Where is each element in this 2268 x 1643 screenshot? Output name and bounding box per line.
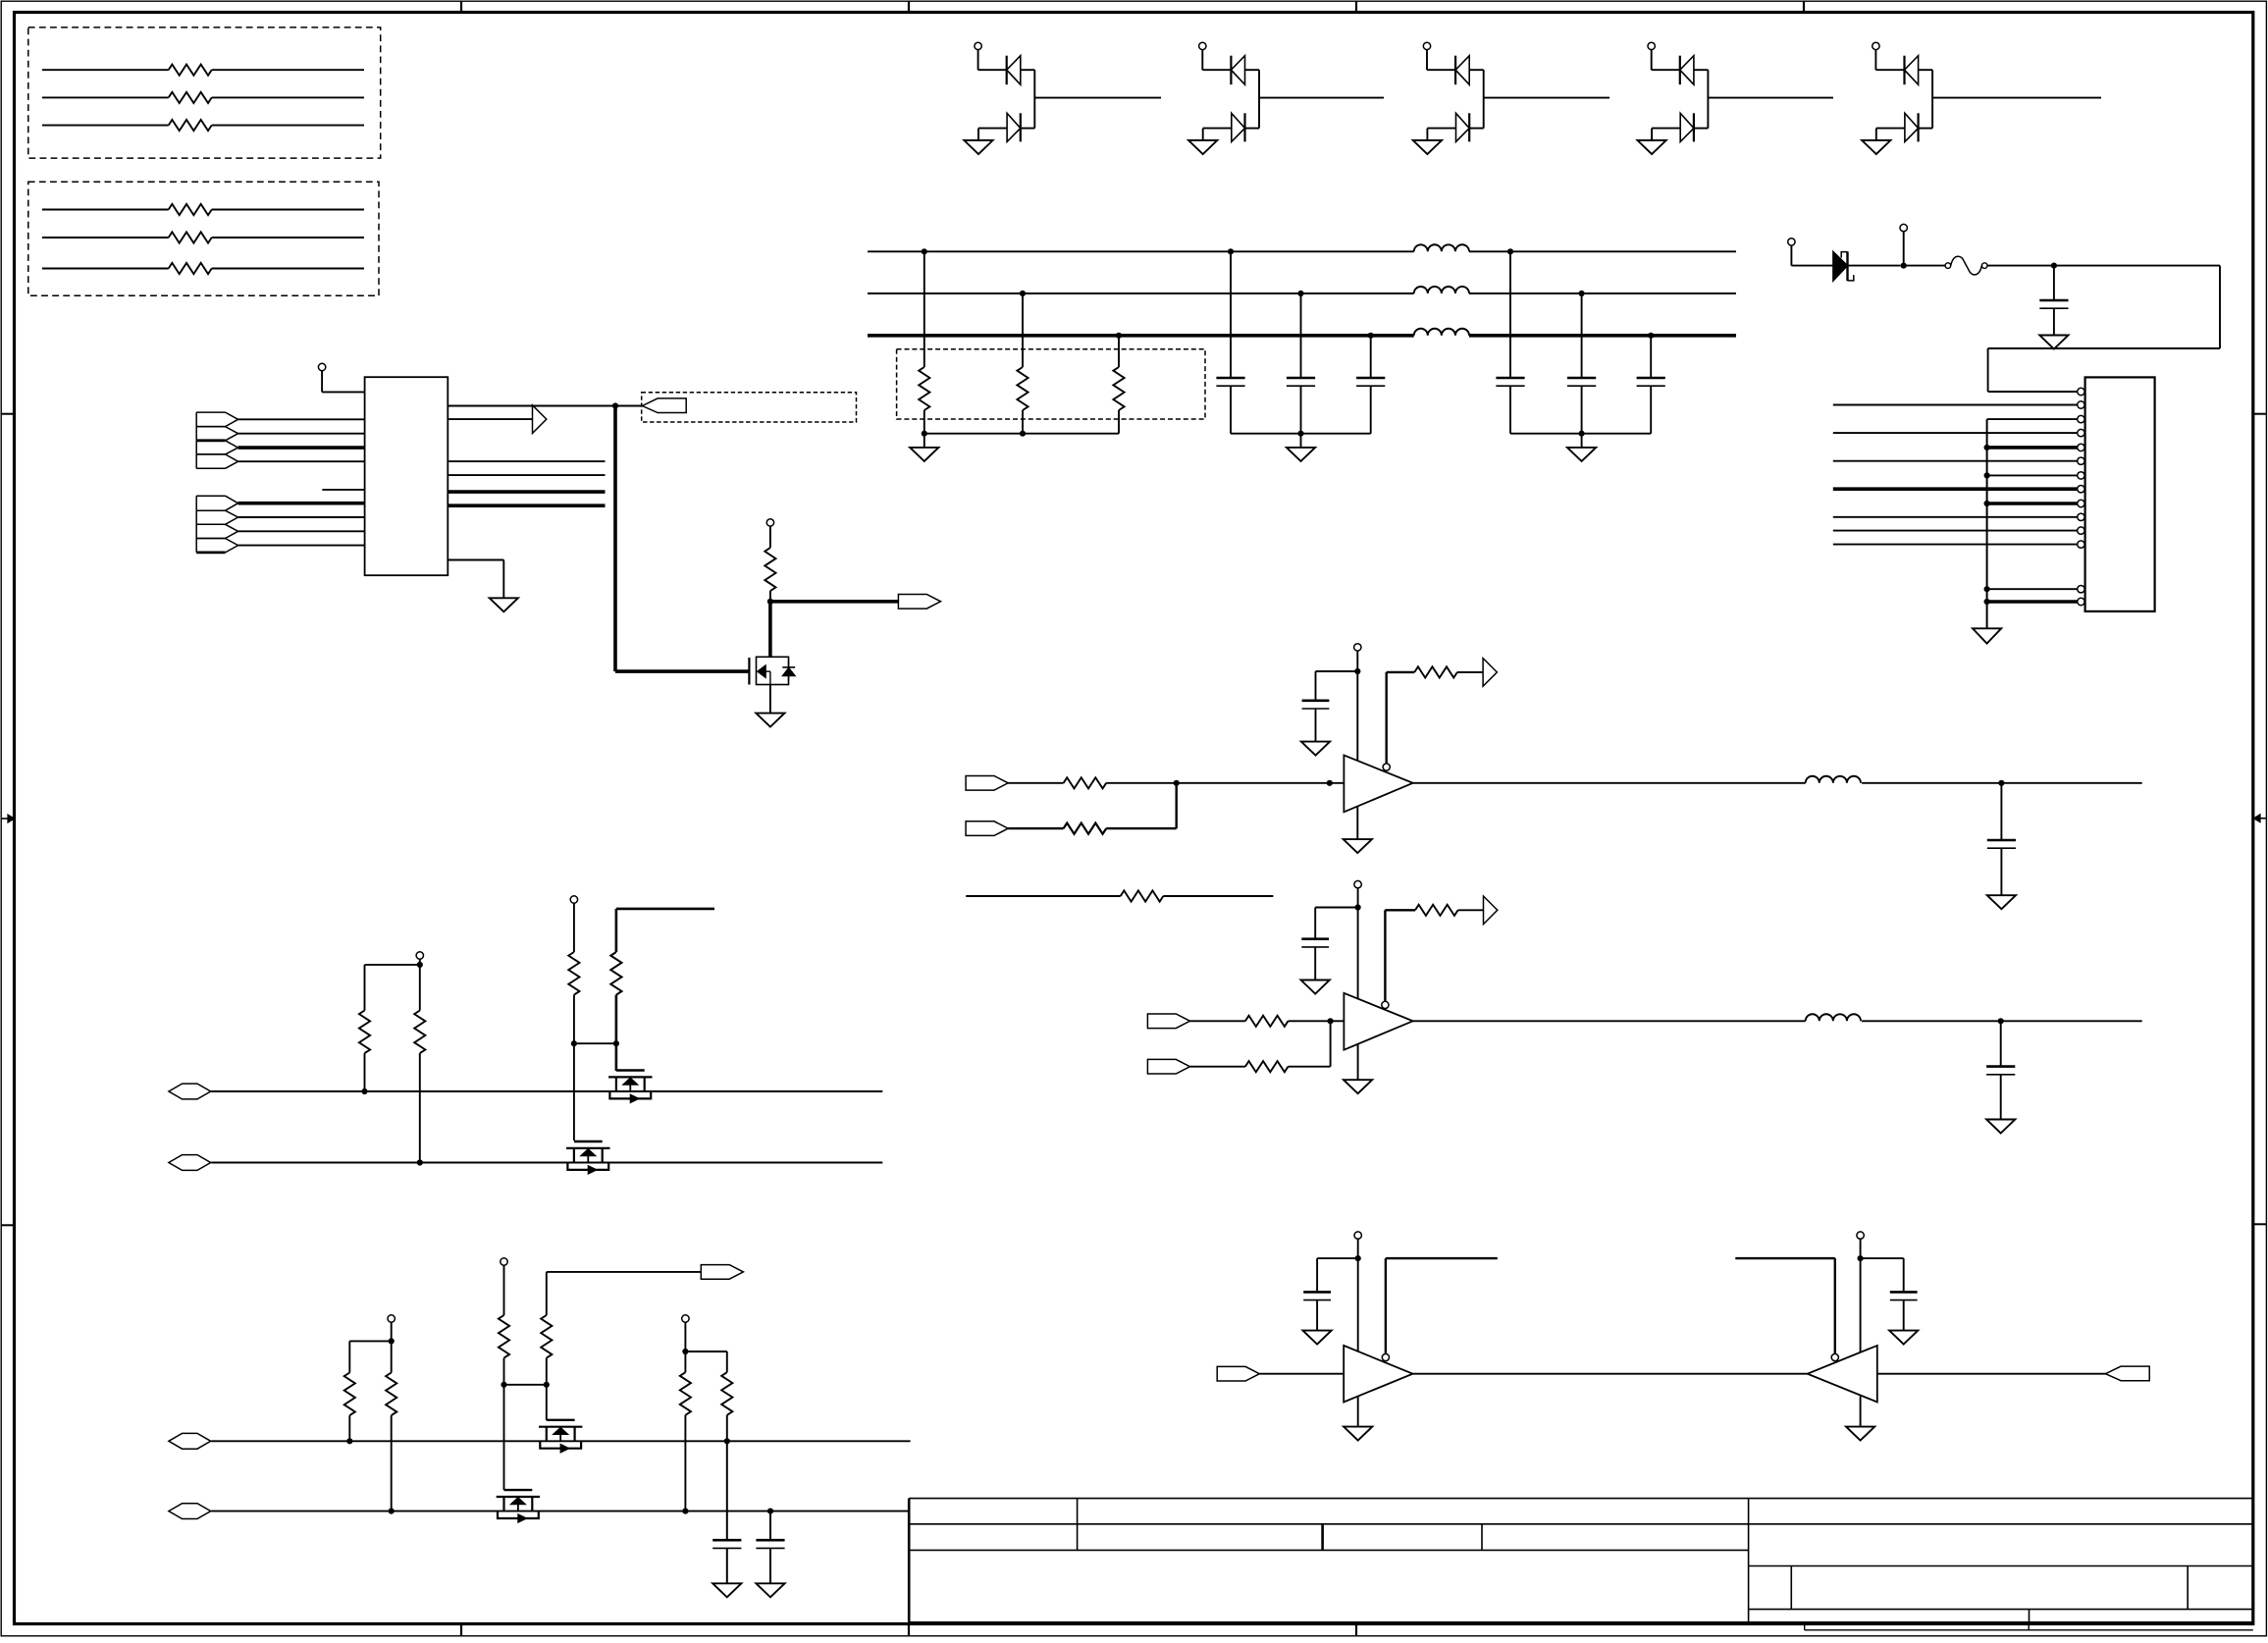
resistor R10 with wires — [966, 895, 1120, 897]
pullup supply pin P6 — [416, 952, 423, 959]
ESD pair D1 ground — [977, 129, 979, 140]
input port IN1 pentagon — [196, 411, 225, 413]
U2 shutdown bubble — [1383, 764, 1390, 770]
C11 ground — [1986, 1120, 2015, 1134]
transistor Q1 gate bar — [748, 658, 750, 685]
output label COUT — [2105, 1366, 2149, 1381]
bottom border zone tick 3 — [1355, 1624, 1357, 1637]
wire R11 to node E — [1289, 1020, 1331, 1022]
connector J1 pin 8 circle — [2078, 486, 2084, 493]
resistor R20 — [499, 1315, 509, 1358]
U3 shutdown bubble — [1382, 1001, 1389, 1008]
wire to J1 pin 2 — [1833, 404, 2078, 406]
capacitor C11 — [2000, 1021, 2002, 1066]
resistor R22 with wires — [42, 237, 169, 238]
diode D1B (to ground) — [978, 128, 1007, 130]
bottom strip start tick — [1804, 1624, 1806, 1630]
wire to C8 — [1316, 670, 1358, 672]
capacitor C5 — [1507, 248, 1513, 254]
resistor R18 — [348, 1415, 350, 1441]
title block sheet divider — [2029, 1610, 2031, 1622]
ground bus stub pin5 — [1987, 446, 2078, 450]
pullup supply pin P9 — [501, 1258, 507, 1265]
resistor R23 with wires — [42, 268, 169, 270]
resistor R11 with wires — [42, 69, 169, 71]
U5 vcc wire — [1860, 1258, 1862, 1352]
transistor Q1 channel arrow — [758, 665, 766, 678]
ESD pair D4 output wire — [1708, 97, 1833, 99]
node F junction — [1998, 1018, 2004, 1024]
ESD pair D5 output wire — [1932, 97, 2101, 99]
dashed box group A — [28, 27, 381, 158]
connector J1 pin 1 circle — [2078, 388, 2084, 395]
diode D3A (to supply) — [1454, 56, 1456, 84]
title block doc row line — [1749, 1609, 2253, 1611]
resistor R3 pullup — [766, 519, 773, 526]
ESD pair D4 ground — [1651, 129, 1653, 140]
wire IN3 to U1 — [238, 446, 365, 450]
connector J1 pin 3 circle — [2078, 415, 2084, 422]
resistor R17 — [610, 952, 621, 995]
wire AIN2 to R8 — [1008, 827, 1063, 829]
U3 vcc wire — [1357, 908, 1359, 999]
capacitor C10 — [1314, 908, 1316, 939]
wire SCL2 line — [211, 1510, 909, 1512]
wire R21 top corner — [547, 1271, 702, 1273]
title block divider 3 — [1481, 1524, 1483, 1551]
input label AIN1 — [966, 776, 1008, 791]
op-amp U2 — [1344, 755, 1412, 812]
ground bus stub pin13 — [1987, 588, 2078, 590]
connector J1 pin 2 circle — [2078, 401, 2084, 408]
title block rev divider — [2187, 1566, 2189, 1610]
ESD pair D3 junction wire — [1483, 70, 1485, 128]
wire R13 to arrow — [1458, 909, 1484, 911]
node I junction — [501, 1382, 506, 1388]
node VF junction — [2051, 263, 2057, 269]
wire R18 top — [349, 1340, 391, 1342]
wire R17 top corner — [616, 908, 714, 911]
U4 ground wire — [1357, 1397, 1359, 1427]
U3 ground wire — [1357, 1044, 1359, 1080]
node J junction — [544, 1382, 550, 1388]
wire R23 node to C12 — [726, 1441, 728, 1540]
wire P10 to R23 — [685, 1351, 726, 1352]
wire BIN1 to R11 — [1190, 1020, 1245, 1022]
bus line PH3 segment 2 — [1469, 334, 1736, 338]
ESD pair D4 power pin — [1648, 42, 1655, 49]
resistor R7 — [1064, 777, 1107, 788]
diode D2B (to ground) — [1203, 128, 1232, 130]
connector ground — [1973, 628, 2001, 643]
left border zone tick lower — [1, 1224, 14, 1226]
node E junction — [1328, 1018, 1334, 1024]
net label pointer NODE_A — [642, 398, 686, 413]
termination dashed box — [897, 349, 1205, 419]
wire to J1 pin 8 — [1833, 487, 2078, 491]
C15 ground — [1889, 1331, 1918, 1345]
right border zone tick upper — [2253, 413, 2267, 415]
output flow arrow SD2 — [1484, 896, 1498, 925]
inductor L5 — [1806, 1014, 1861, 1021]
top border zone tick 2 — [908, 1, 910, 12]
bottom-right frame strip line — [1805, 1629, 2253, 1631]
ESD pair D2 output wire — [1259, 97, 1384, 99]
capacitor C15 — [1903, 1258, 1905, 1292]
resistor R11 — [1245, 1016, 1289, 1027]
capacitor C13 — [769, 1511, 771, 1541]
U1 output stub 4 — [448, 474, 605, 476]
resistor R9 — [1414, 666, 1457, 677]
power input pin P1 — [1788, 238, 1795, 245]
wire R9 to arrow — [1457, 671, 1483, 673]
U4 shutdown wire — [1385, 1258, 1387, 1353]
left border mid arrow — [1, 818, 8, 820]
input label CIN — [1217, 1366, 1259, 1381]
node P8 junction — [389, 1338, 395, 1344]
resistor R23 — [726, 1351, 728, 1372]
wire IN2 to U1 — [238, 433, 365, 435]
buffer U5 — [1808, 1346, 1877, 1403]
resistor R5 — [1020, 291, 1026, 296]
diode D2A (to supply) — [1230, 56, 1232, 84]
op-amp U3 — [1344, 993, 1412, 1050]
ground bus vertical — [1986, 419, 1988, 628]
bus line PH2 segment 1 — [868, 292, 1414, 294]
input label AIN2 — [966, 821, 1008, 836]
ESD pair D3 ground — [1426, 129, 1428, 140]
cap group B ground — [1581, 434, 1583, 448]
capacitor C7 — [1648, 333, 1654, 339]
ESD pair D2 ground — [1202, 129, 1204, 140]
bottom border zone tick 2 — [908, 1624, 910, 1637]
capacitor C3 — [1297, 291, 1303, 296]
ESD pair D1 output wire — [1034, 97, 1161, 99]
wire VIN to fuse F1 — [1904, 265, 1946, 267]
U2 ground wire — [1356, 807, 1358, 839]
title block size divider — [1790, 1566, 1792, 1610]
resistor R16 — [568, 952, 579, 995]
U4 vcc wire — [1357, 1258, 1359, 1351]
ESD pair D3 output wire — [1484, 97, 1609, 99]
ESD pair D2 power pin — [1199, 42, 1206, 49]
wire to connector pin 1 — [1988, 391, 2078, 393]
output flow arrow — [533, 405, 547, 434]
node A junction — [612, 402, 618, 408]
connector J1 pin 4 circle — [2078, 429, 2084, 436]
wire CIN to U4 — [1259, 1373, 1344, 1375]
bottom border zone tick 1 — [460, 1624, 462, 1637]
connector J1 body — [2085, 377, 2155, 611]
ground bus stub pin3 — [1987, 418, 2078, 420]
pullup supply pin P7 — [570, 896, 577, 903]
U4 ground — [1344, 1427, 1372, 1441]
capacitor C9 — [2000, 783, 2002, 840]
wire R7 to node C — [1106, 782, 1177, 784]
top border zone tick 3 — [1355, 1, 1357, 12]
net label pointer NODE_B — [898, 595, 940, 609]
input port IN5 pentagon — [196, 495, 225, 497]
U2 power pin P4 — [1354, 644, 1361, 651]
inductor L3 — [1414, 329, 1469, 336]
diode D4A (to supply) — [1679, 56, 1681, 84]
U5 ground — [1846, 1427, 1874, 1441]
wire down right side — [2219, 266, 2221, 348]
wire to C14 — [1317, 1257, 1358, 1259]
wire D6 to node VIN — [1848, 265, 1901, 267]
wire to J1 pin 6 — [1833, 460, 2078, 462]
title block row line 3 — [909, 1549, 1748, 1551]
resistor R21 — [541, 1315, 552, 1358]
U3 power junction — [1355, 904, 1361, 910]
pullup supply pin P8 — [388, 1315, 395, 1322]
bus line PH1 segment 1 — [868, 250, 1414, 252]
U1 ground wire — [448, 559, 503, 561]
U5 shutdown wire — [1834, 1258, 1836, 1353]
title block row line 2 — [909, 1523, 2253, 1525]
ESD pair D1 junction wire — [1033, 70, 1035, 128]
input port IN8 pentagon — [196, 538, 225, 540]
wire P1 to D6 — [1791, 265, 1833, 267]
title block right row line — [1749, 1565, 2253, 1567]
bidir label SDA1 — [169, 1084, 211, 1099]
wire VF to right corner — [2054, 265, 2220, 267]
U5 power junction — [1858, 1255, 1864, 1261]
connector J1 pin 13 circle — [2078, 586, 2084, 593]
Q1 ground — [756, 714, 784, 727]
wire IN1 to U1 — [238, 418, 365, 420]
node P6 junction — [417, 962, 423, 968]
wire IN6 to U1 — [238, 516, 365, 518]
connector J1 pin 14 circle — [2078, 598, 2084, 605]
wire SDA1 line — [211, 1090, 882, 1092]
left border zone tick upper — [1, 413, 14, 415]
output flow arrow SD1 — [1483, 659, 1497, 687]
inductor L2 — [1414, 287, 1469, 293]
U2 ground — [1344, 839, 1372, 853]
C13 ground — [756, 1583, 784, 1597]
dashed box group B — [28, 182, 379, 295]
input label BIN1 — [1147, 1014, 1189, 1029]
U1 stub wire — [322, 489, 364, 491]
diode D5A (to supply) — [1903, 56, 1905, 84]
capacitor C14 — [1316, 1258, 1318, 1292]
input label BIN2 — [1147, 1059, 1189, 1074]
transistor Q1 body — [757, 657, 789, 684]
ESD pair D3 power pin — [1423, 42, 1430, 49]
node P10 junction — [682, 1349, 688, 1354]
node B junction — [767, 599, 773, 605]
U1 enable pin P3 — [318, 363, 325, 370]
termination ground — [923, 434, 925, 448]
buffer U4 — [1344, 1346, 1412, 1403]
input port IN4 pentagon — [196, 453, 225, 455]
ESD pair D5 junction wire — [1931, 70, 1933, 128]
net label dashed box — [642, 393, 857, 422]
wire L4 to node D — [1862, 782, 2001, 784]
resistor R15 — [419, 965, 421, 1011]
inductor L1 — [1414, 244, 1469, 251]
inductor L4 — [1806, 776, 1861, 783]
wire to D1 top diode — [978, 69, 1007, 71]
resistor R14 — [364, 1053, 366, 1091]
bidir label SCL1 — [169, 1155, 211, 1171]
U4 power junction — [1355, 1255, 1361, 1261]
bidir label SCL2 — [169, 1504, 211, 1519]
input port IN7 pentagon — [196, 523, 225, 525]
wire node G to Q3 gate — [573, 1043, 575, 1140]
Q1 source wire — [769, 685, 771, 714]
U2 vcc wire — [1356, 671, 1358, 761]
U1 ground — [490, 598, 518, 611]
connector J1 pin 10 circle — [2078, 513, 2084, 520]
node R23 bottom — [724, 1438, 730, 1444]
U1 output stub 3 — [448, 460, 605, 462]
diode D3B (to ground) — [1427, 128, 1455, 130]
node VIN junction — [1901, 263, 1907, 269]
U3 power pin P5 — [1354, 880, 1361, 887]
node R14 bottom — [361, 1088, 367, 1094]
ground bus stub pin14 — [1987, 600, 2078, 604]
wire to D5 top diode — [1875, 69, 1904, 71]
U1 output 1 wire — [448, 405, 615, 407]
wire to J1 pin 12 — [1833, 544, 2078, 546]
wire to C10 — [1315, 907, 1357, 909]
cap group A ground — [1300, 434, 1302, 448]
U3 ground — [1344, 1080, 1372, 1093]
top border zone tick 4 — [1803, 1, 1805, 12]
input port IN3 pentagon — [196, 439, 225, 442]
ground bus stub pin7 — [1987, 474, 2078, 476]
title block divider 4 — [1748, 1499, 1750, 1622]
connector J1 pin 9 circle — [2078, 500, 2084, 506]
input port IN2 pentagon — [196, 426, 225, 428]
U1 output 2 wire — [448, 418, 532, 420]
fuse F1 — [1945, 263, 1951, 269]
wire R8 to node C — [1106, 827, 1177, 829]
right border mid arrow — [2260, 818, 2267, 820]
resistor R12 with wires — [42, 96, 169, 98]
wire leftward at y355 — [1988, 347, 2220, 349]
connector J1 pin 11 circle — [2078, 527, 2084, 534]
wire node G to node H — [574, 1042, 616, 1044]
resistor R4 — [922, 248, 927, 254]
input port IN6 pentagon — [196, 509, 225, 511]
ESD pair D1 power pin — [975, 42, 981, 49]
bottom-right frame strip divider — [2028, 1624, 2030, 1630]
top border zone tick 1 — [460, 1, 462, 12]
bus line PH1 segment 2 — [1469, 250, 1736, 252]
wire to J1 pin 10 — [1833, 516, 2078, 518]
wire node I to node J — [504, 1384, 547, 1386]
title block top line — [909, 1498, 2253, 1500]
wire node J to Q4 gate — [546, 1385, 548, 1420]
capacitor C4 — [1368, 333, 1374, 339]
wire AIN1 to R7 — [1008, 782, 1063, 784]
C14 ground — [1303, 1331, 1332, 1345]
U4 shutdown bubble — [1382, 1353, 1389, 1360]
transistor Q5 — [497, 1496, 540, 1498]
C8 ground — [1301, 742, 1330, 756]
wire U5 to COUT — [1877, 1373, 2106, 1375]
connector J1 pin 5 circle — [2078, 444, 2084, 450]
wire IN8 to U1 — [238, 545, 365, 547]
connector J1 pin 6 circle — [2078, 457, 2084, 464]
U1 output bus stub 5 — [448, 490, 605, 494]
wire IN5 to U1 — [238, 502, 365, 505]
transistor Q3 — [566, 1147, 609, 1149]
transistor Q1 body diode — [788, 660, 790, 681]
U5 power pin P12 — [1857, 1232, 1864, 1239]
U5 shutdown bubble — [1831, 1353, 1838, 1360]
U3 output wire — [1413, 1020, 1806, 1022]
wire node D right — [2001, 782, 2141, 784]
resistor R13 with wires — [42, 125, 169, 127]
wire to J1 pin 11 — [1833, 530, 2078, 532]
wire U4 to U5 — [1413, 1373, 1808, 1375]
C9 ground — [1987, 895, 2016, 909]
bus line PH3 segment 1 — [868, 334, 1414, 338]
wire to J1 pin 4 — [1833, 432, 2078, 434]
node R18 bottom — [346, 1438, 352, 1444]
C1 ground — [2039, 336, 2068, 349]
wire down to pin1 row — [1987, 348, 1989, 392]
cap group A rail — [1231, 433, 1371, 435]
C10 ground — [1301, 980, 1330, 994]
transistor Q2 — [608, 1076, 652, 1078]
U3 shutdown wire — [1384, 910, 1386, 1001]
wire node B to label — [770, 600, 899, 604]
resistor R19 — [391, 1341, 393, 1372]
wire node I to Q5 gate — [503, 1385, 505, 1490]
node D junction — [1998, 780, 2004, 786]
right border zone tick lower — [2253, 1223, 2267, 1225]
diode D5B (to ground) — [1876, 128, 1905, 130]
capacitor C1 — [2053, 266, 2055, 300]
capacitor C2 — [1228, 248, 1234, 254]
wire fuse to node VF — [1987, 265, 2054, 267]
transistor Q4 — [539, 1426, 582, 1428]
connector J1 pin 12 circle — [2078, 541, 2084, 548]
title block left edge — [908, 1499, 911, 1622]
node R15 bottom — [417, 1159, 423, 1165]
diode D4B (to ground) — [1652, 128, 1680, 130]
power pin P2 — [1900, 224, 1907, 231]
wire node C to U2 — [1177, 782, 1345, 784]
wire node E to U3 — [1331, 1020, 1345, 1022]
capacitor C8 — [1315, 671, 1317, 701]
node G junction — [571, 1040, 577, 1046]
resistor R8 — [1064, 823, 1107, 834]
resistor R22 — [684, 1351, 686, 1372]
cap group B rail — [1510, 433, 1651, 435]
ESD pair D5 ground — [1875, 129, 1877, 140]
wire to C15 — [1861, 1257, 1904, 1259]
U1 output bus stub 6 — [448, 503, 605, 507]
Q1 drain wire — [768, 602, 772, 658]
U2 power junction — [1354, 668, 1360, 674]
node at U2 input — [1327, 780, 1333, 786]
wire node H to Q2 gate — [615, 1043, 618, 1071]
node R22 bottom — [682, 1509, 688, 1514]
capacitor C12 — [712, 1539, 741, 1542]
pullup supply pin P10 — [682, 1315, 689, 1322]
node R19 bottom — [389, 1509, 395, 1514]
ESD pair D2 junction wire — [1258, 70, 1260, 128]
wire to D3 top diode — [1427, 69, 1455, 71]
wire to D2 top diode — [1202, 69, 1231, 71]
wire to D4 top diode — [1652, 69, 1680, 71]
